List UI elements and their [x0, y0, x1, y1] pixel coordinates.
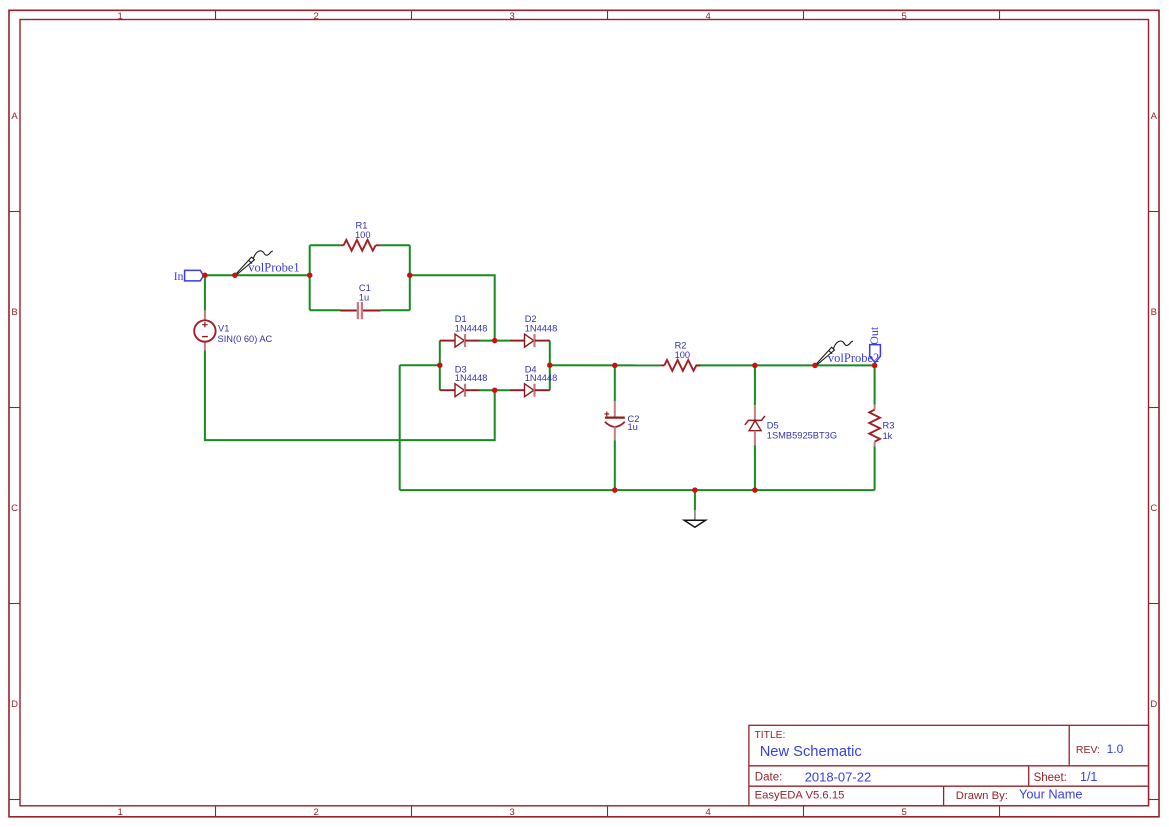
- svg-text:C: C: [1150, 503, 1157, 514]
- svg-text:Out: Out: [867, 326, 881, 345]
- svg-text:1u: 1u: [359, 292, 369, 302]
- svg-text:1N4448: 1N4448: [525, 323, 558, 333]
- capacitor C1: [340, 283, 380, 319]
- svg-text:1: 1: [118, 807, 123, 818]
- capacitor C2 (polarized): [604, 401, 639, 440]
- wire: RC box right vertical: [409, 245, 411, 310]
- wire: R2 right to Out: [696, 364, 875, 366]
- diode D3: [440, 384, 480, 397]
- svg-text:R1: R1: [356, 221, 368, 231]
- wire: bridge top row middle: [480, 340, 510, 342]
- wire: box to bridge top: [410, 275, 495, 340]
- svg-text:100: 100: [355, 230, 371, 240]
- wire: D5 top stub: [754, 365, 756, 405]
- wire: ground stub: [694, 490, 696, 510]
- svg-text:1u: 1u: [628, 422, 638, 432]
- svg-text:R3: R3: [883, 421, 895, 431]
- wire: RC box left vertical: [309, 245, 311, 310]
- resistor R2: [660, 340, 700, 371]
- voltage probe volProbe2: [815, 341, 879, 365]
- svg-text:R2: R2: [675, 340, 687, 350]
- diode D4: [510, 384, 550, 397]
- wire: In node top rail: [205, 274, 310, 276]
- resistor R1: [341, 221, 381, 251]
- svg-text:SIN(0 60) AC: SIN(0 60) AC: [218, 334, 273, 344]
- svg-text:B: B: [1151, 307, 1157, 318]
- svg-text:C: C: [11, 503, 18, 514]
- wire: bridge left stub: [400, 364, 440, 366]
- svg-text:2018-07-22: 2018-07-22: [805, 769, 872, 784]
- svg-text:volProbe1: volProbe1: [248, 260, 299, 274]
- wire: C1 bottom edge left segment: [310, 309, 341, 311]
- wire: left return down: [399, 365, 401, 490]
- wire: R1 top edge left segment: [310, 244, 341, 246]
- svg-text:REV:: REV:: [1076, 744, 1100, 756]
- resistor R3: [869, 405, 894, 447]
- wire: R3 bottom stub: [874, 446, 876, 490]
- wire: bridge bottom row middle: [480, 389, 510, 391]
- voltage source V1: [194, 310, 272, 350]
- svg-text:1.0: 1.0: [1107, 742, 1124, 756]
- svg-text:1: 1: [118, 11, 123, 22]
- svg-text:5: 5: [902, 11, 907, 22]
- svg-text:New Schematic: New Schematic: [760, 744, 862, 760]
- zener diode D5: [745, 405, 837, 445]
- svg-text:100: 100: [675, 350, 691, 360]
- diode D2: [510, 334, 550, 347]
- diode D1: [440, 334, 480, 347]
- svg-text:1N4448: 1N4448: [455, 373, 488, 383]
- svg-text:In: In: [174, 271, 184, 283]
- wire: bridge right vertical: [549, 341, 551, 391]
- svg-text:1/1: 1/1: [1080, 770, 1097, 784]
- svg-text:B: B: [11, 307, 17, 318]
- junction dots: [202, 272, 877, 492]
- port Out: [867, 326, 881, 362]
- wire: C1 bottom edge right segment: [381, 309, 410, 311]
- svg-text:V1: V1: [218, 324, 229, 334]
- svg-text:Sheet:: Sheet:: [1034, 772, 1067, 784]
- wire: bottom rail: [400, 489, 875, 491]
- svg-text:D: D: [1150, 699, 1157, 710]
- svg-text:volProbe2: volProbe2: [828, 351, 879, 365]
- svg-text:D: D: [11, 699, 18, 710]
- wire: C2 top stub: [614, 365, 616, 401]
- wire: bridge left vertical: [439, 341, 441, 391]
- svg-text:D5: D5: [767, 420, 779, 430]
- title block: [749, 725, 1149, 806]
- svg-text:TITLE:: TITLE:: [755, 730, 786, 741]
- svg-text:Date:: Date:: [755, 772, 783, 784]
- svg-text:Drawn By:: Drawn By:: [956, 790, 1008, 802]
- svg-text:2: 2: [314, 807, 319, 818]
- svg-text:EasyEDA V5.6.15: EasyEDA V5.6.15: [755, 790, 845, 802]
- title block text: [755, 730, 1101, 802]
- wire: V1 top lead wire: [204, 275, 206, 310]
- svg-text:A: A: [1151, 111, 1158, 122]
- svg-text:3: 3: [510, 807, 515, 818]
- svg-text:1k: 1k: [883, 431, 893, 441]
- wire: V1 bottom to rail: [205, 351, 495, 441]
- svg-text:1SMB5925BT3G: 1SMB5925BT3G: [767, 430, 837, 440]
- svg-text:2: 2: [314, 11, 319, 22]
- wire: bridge out rail to Out: [550, 364, 661, 366]
- wire: C2 bottom stub: [614, 440, 616, 490]
- wire: R1 top edge right segment: [381, 244, 410, 246]
- svg-text:1N4448: 1N4448: [525, 373, 558, 383]
- svg-text:5: 5: [902, 807, 907, 818]
- svg-text:A: A: [11, 111, 18, 122]
- ground: [684, 510, 705, 527]
- svg-text:1N4448: 1N4448: [455, 323, 488, 333]
- svg-text:4: 4: [706, 807, 711, 818]
- port In: [174, 270, 204, 283]
- svg-text:3: 3: [510, 11, 515, 22]
- svg-text:4: 4: [706, 11, 711, 22]
- svg-text:Your Name: Your Name: [1019, 787, 1083, 802]
- wire: D5 bottom stub: [754, 445, 756, 490]
- voltage probe volProbe1: [235, 251, 299, 275]
- wire: R3 top stub: [874, 365, 876, 404]
